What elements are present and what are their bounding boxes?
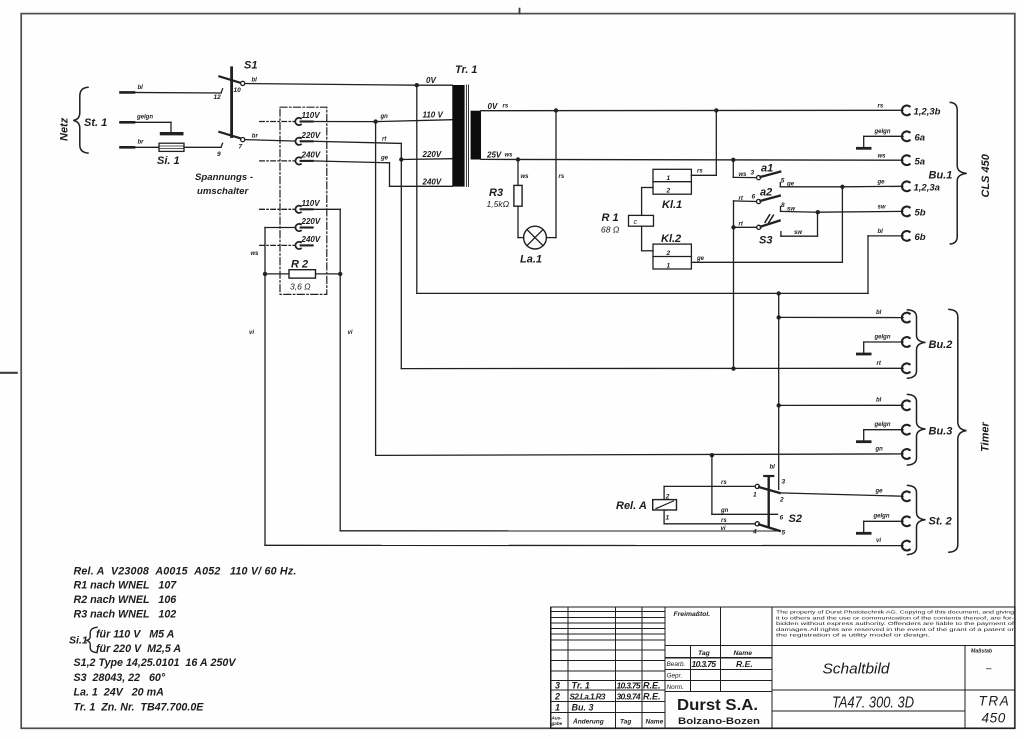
connector St.2 gelgn [902, 516, 910, 526]
wire gelgn St.2 with ground [857, 514, 903, 534]
brace Bu.1 [950, 102, 967, 244]
brace Bu.3 [908, 394, 926, 465]
property notice text [776, 610, 1015, 638]
resistor R2 3,6 ohm [265, 259, 340, 292]
connector Bu.1 pin 1,2,3b [878, 104, 941, 118]
svg-text:Tr. 1: Tr. 1 [572, 681, 590, 691]
svg-text:110V: 110V [302, 111, 321, 120]
svg-text:S3: S3 [759, 235, 772, 247]
svg-text:240V: 240V [301, 235, 321, 244]
svg-text:1,2,3b: 1,2,3b [914, 107, 941, 118]
svg-text:Gepr.: Gepr. [667, 673, 683, 680]
svg-text:Kl.2: Kl.2 [661, 233, 681, 245]
node rt junction [731, 366, 735, 370]
svg-text:7: 7 [239, 144, 243, 151]
svg-text:ge: ge [380, 156, 389, 162]
wire sw a2 out to 5b [781, 202, 903, 212]
svg-text:5b: 5b [915, 208, 926, 219]
wire vi R2 left down [264, 274, 266, 545]
svg-text:gn: gn [380, 114, 389, 120]
transformer Tr.1 primary core [452, 85, 464, 187]
svg-text:1,2,3a: 1,2,3a [914, 183, 940, 194]
svg-text:La. 1 24V 20 mA: La. 1 24V 20 mA [74, 686, 164, 698]
Maßstab cell [971, 649, 993, 675]
node Netz label [59, 117, 71, 141]
connector Bu.2 rt [877, 361, 910, 373]
brace St.1 [73, 87, 88, 153]
wire bl vertical to S2 [778, 293, 780, 489]
wire br from mains [121, 146, 160, 148]
svg-text:R.E.: R.E. [643, 692, 661, 702]
switch S1 bottom contact 7 [241, 138, 245, 142]
transformer Tr.1 secondary core [471, 111, 481, 160]
wire 0V dropper down [416, 85, 418, 293]
svg-text:3: 3 [782, 479, 786, 486]
svg-text:umschalter: umschalter [197, 186, 249, 197]
svg-text:bl: bl [770, 465, 776, 471]
connector Bu.3 gn [875, 447, 910, 459]
svg-text:110V: 110V [302, 199, 321, 208]
tap 240V lower dashed stub [260, 244, 295, 246]
voltage selector dash-dot box [280, 107, 327, 294]
drawing title Schaltbild [823, 662, 891, 678]
svg-text:220V: 220V [422, 150, 442, 159]
svg-text:a2: a2 [760, 187, 772, 199]
svg-text:68 Ω: 68 Ω [601, 225, 620, 235]
svg-text:Spannungs -: Spannungs - [195, 172, 253, 183]
svg-text:ge: ge [696, 256, 705, 262]
svg-text:R2 nach WNEL 106: R2 nach WNEL 106 [74, 594, 177, 606]
connector Bu.1 pin 1,2,3a [877, 180, 940, 194]
svg-text:für 220 V M2,5 A: für 220 V M2,5 A [96, 643, 181, 655]
drawing number TA47.300.3D [832, 695, 914, 712]
svg-text:br: br [252, 134, 259, 140]
svg-text:R 1: R 1 [602, 212, 619, 224]
wire rs vertical from 0V line [715, 110, 717, 175]
revision table rows [551, 612, 665, 713]
svg-text:damages.All rights are reserve: damages.All rights are reserved in the e… [776, 627, 1015, 632]
wire rt dropper down [400, 160, 402, 369]
wire bl 6b [868, 229, 903, 293]
svg-text:6b: 6b [915, 232, 926, 243]
svg-text:6: 6 [752, 194, 756, 201]
wire vi bus to St.2 [265, 544, 903, 546]
svg-text:10.3.75: 10.3.75 [617, 681, 641, 691]
brace St.2 [908, 485, 926, 554]
svg-text:30.9.74: 30.9.74 [617, 692, 641, 702]
node R2 right junction [338, 272, 342, 276]
contact S2 bottom 4 [752, 522, 786, 537]
wire 0V rs secondary line [481, 109, 903, 111]
label CLS450 [980, 153, 992, 197]
node sw junction [816, 210, 820, 214]
svg-text:–: – [986, 664, 992, 675]
svg-text:Rel. A: Rel. A [616, 500, 647, 512]
wire ge a1 out to 1,2,3a [780, 178, 903, 188]
wire gelgn Bu.3 with ground [857, 422, 903, 442]
svg-text:5: 5 [782, 530, 786, 537]
svg-text:vi: vi [249, 330, 254, 336]
wire gn branch to S2 [712, 455, 784, 521]
svg-text:220V: 220V [301, 131, 321, 140]
svg-text:ws: ws [505, 153, 514, 159]
Durst S.A. logo text [677, 697, 760, 726]
revision entries [551, 681, 664, 727]
wire bl from mains [121, 91, 222, 94]
svg-text:ws: ws [521, 174, 530, 180]
tap 110V lower dashed stub [260, 208, 295, 210]
svg-text:Bu.1: Bu.1 [929, 170, 953, 182]
node 25V junction to R3 [516, 157, 520, 161]
svg-text:sw: sw [794, 230, 802, 236]
svg-text:Name: Name [646, 719, 664, 726]
svg-text:Kl.1: Kl.1 [662, 199, 682, 211]
svg-text:Aus-: Aus- [551, 716, 563, 721]
switch S1 top contact 10 [241, 81, 245, 85]
svg-text:Norm.: Norm. [667, 684, 684, 691]
svg-text:bl: bl [878, 229, 884, 235]
brace Si.1 [86, 627, 97, 652]
svg-text:rs: rs [559, 174, 565, 180]
svg-text:rt: rt [382, 137, 387, 143]
label Bu.3 [929, 426, 953, 438]
wire rs Rel.A pin2 to S2 contact 1 [664, 480, 755, 500]
svg-text:1: 1 [666, 515, 670, 522]
svg-text:TRA: TRA [979, 694, 1011, 709]
tap 110V lower [295, 199, 320, 213]
svg-text:S3 28043, 22 60°: S3 28043, 22 60° [74, 672, 166, 684]
svg-text:S1: S1 [244, 60, 257, 72]
wire bl 0V bus [417, 292, 868, 294]
svg-text:gelgn: gelgn [136, 115, 153, 121]
brace Bu.2 [908, 310, 926, 378]
svg-text:rs: rs [503, 104, 509, 110]
svg-text:bl: bl [252, 78, 258, 84]
svg-text:R.E.: R.E. [736, 659, 753, 669]
svg-text:ws: ws [251, 251, 260, 257]
node gn junction [710, 453, 714, 457]
wire Kl.1 pin2 to R1 [642, 187, 653, 189]
svg-text:St. 1: St. 1 [84, 117, 107, 129]
svg-text:Tr. 1: Tr. 1 [455, 64, 477, 76]
svg-text:ge: ge [877, 180, 886, 186]
svg-text:Netz: Netz [59, 117, 71, 141]
node R2 left junction [263, 272, 267, 276]
svg-text:110 V: 110 V [423, 111, 444, 120]
svg-text:Änderung: Änderung [572, 718, 604, 726]
svg-text:bl: bl [138, 85, 144, 91]
svg-text:3: 3 [555, 681, 560, 691]
svg-text:1: 1 [667, 175, 671, 182]
wire sw S3 out [781, 212, 818, 236]
contact a2 [757, 187, 780, 204]
node 220V junction [399, 157, 403, 161]
connector Bu.1 pin 6b [902, 231, 926, 243]
svg-text:S2.La.1.R3: S2.La.1.R3 [570, 693, 607, 702]
svg-text:rs: rs [721, 480, 727, 486]
relay coil Kl.2 [653, 233, 691, 270]
resistor R1 68 ohm [629, 215, 654, 226]
svg-text:25V: 25V [486, 151, 502, 160]
wire R3 to lamp [517, 206, 519, 237]
node Bu.3 bl junction [777, 403, 781, 407]
wire 25V ws secondary line [481, 158, 903, 161]
node 0V rs junction to lamp [554, 108, 558, 112]
wire 220V terminal [401, 158, 452, 161]
svg-text:rs: rs [697, 169, 703, 175]
svg-text:gn: gn [875, 447, 884, 453]
wire lamp to rs [546, 237, 556, 239]
node ge junction [840, 185, 844, 189]
wire vi R2 right down [339, 274, 341, 531]
svg-text:240V: 240V [422, 177, 442, 186]
label Spannungsumschalter [195, 172, 253, 197]
svg-text:gelgn: gelgn [874, 335, 891, 341]
svg-text:Timer: Timer [980, 422, 992, 452]
svg-text:sw: sw [878, 205, 886, 211]
svg-text:Schaltbild: Schaltbild [823, 662, 891, 678]
svg-text:1: 1 [667, 263, 671, 270]
wire gelgn Bu.2 with ground [857, 335, 903, 355]
svg-text:Si.1: Si.1 [69, 635, 88, 647]
wire br fuse to S1 [184, 146, 221, 148]
svg-text:Tr. 1 Zn. Nr. TB47.700.0E: Tr. 1 Zn. Nr. TB47.700.0E [74, 701, 205, 713]
tap 220V lower [295, 217, 320, 231]
svg-text:1: 1 [555, 703, 560, 713]
svg-text:CLS 450: CLS 450 [980, 153, 992, 197]
svg-text:gn: gn [720, 508, 729, 514]
svg-text:Bu.2: Bu.2 [929, 339, 953, 351]
transformer Tr.1 core gap lines [465, 85, 467, 187]
node ws junction on 5a line [731, 158, 735, 162]
wire rs Rel.A pin1 to S2 contact 4 [664, 510, 755, 524]
svg-text:2: 2 [666, 250, 671, 257]
svg-text:gelgn: gelgn [874, 129, 891, 135]
svg-text:gabe: gabe [551, 721, 563, 726]
svg-text:8: 8 [781, 202, 785, 209]
lamp La.1 [524, 226, 547, 249]
svg-text:R1 nach WNEL 107: R1 nach WNEL 107 [74, 580, 178, 592]
wire gelgn 6a with ground [857, 129, 903, 148]
wire ws down to R3 [517, 160, 519, 186]
svg-text:rs: rs [878, 104, 884, 110]
svg-text:2: 2 [554, 692, 560, 702]
node 0V primary junction [415, 83, 419, 87]
wire rt to contact a2 [734, 194, 757, 369]
svg-text:rt: rt [739, 222, 744, 228]
switch S1 bottom blade [219, 132, 240, 139]
svg-text:Name: Name [734, 650, 753, 657]
svg-text:10.3.75: 10.3.75 [692, 659, 717, 669]
connector Bu.2 bl [902, 313, 910, 323]
connector Bu.3 gelgn [902, 425, 910, 435]
svg-text:S2: S2 [789, 513, 802, 525]
svg-text:2: 2 [666, 188, 671, 195]
svg-text:ws: ws [739, 172, 748, 178]
svg-text:Bu. 3: Bu. 3 [572, 703, 594, 713]
tap 240V lower [295, 235, 320, 249]
svg-text:R 2: R 2 [291, 259, 308, 271]
svg-text:2: 2 [779, 497, 784, 504]
svg-text:0V: 0V [488, 102, 498, 111]
node rs junction [714, 108, 718, 112]
svg-text:Si. 1: Si. 1 [157, 155, 180, 167]
label Bu.1 [929, 170, 953, 182]
svg-text:c: c [634, 219, 638, 226]
svg-text:für 110 V M5 A: für 110 V M5 A [96, 629, 174, 641]
svg-text:bl: bl [876, 398, 882, 404]
middle cells [665, 607, 1015, 728]
svg-text:R3 nach WNEL 102: R3 nach WNEL 102 [74, 609, 177, 621]
wire rs Kl.1 pin1 [691, 174, 716, 176]
svg-text:240V: 240V [301, 150, 321, 159]
wire R1 to Kl.2 pin2 [641, 226, 643, 251]
svg-text:ge: ge [786, 182, 795, 188]
svg-text:Maßstab: Maßstab [971, 649, 993, 655]
wire ws to contact a1 [733, 160, 756, 178]
svg-text:1: 1 [753, 492, 757, 499]
wire ge S2 out to St.2 [780, 493, 903, 496]
connector St.2 ge [902, 491, 910, 501]
connector St.1 label [84, 117, 107, 129]
label St.2 [929, 516, 952, 528]
contact S2 top 1 [753, 484, 784, 503]
svg-text:gelgn: gelgn [873, 514, 890, 520]
svg-text:bl: bl [876, 310, 882, 316]
svg-text:5a: 5a [915, 156, 926, 167]
wire rt 220V tap down to transformer 220V [313, 137, 402, 160]
label Bu.2 [929, 339, 953, 351]
svg-text:4: 4 [752, 529, 757, 536]
svg-text:6a: 6a [915, 133, 926, 144]
contact a1 [757, 163, 781, 180]
wire gn tap to transformer [313, 121, 376, 123]
wire 110V lower to R2 right [313, 209, 341, 274]
svg-text:rs: rs [721, 518, 727, 524]
connector Bu.3 bl [902, 400, 910, 410]
label Timer [980, 422, 992, 452]
svg-text:3,6 Ω: 3,6 Ω [290, 282, 311, 292]
svg-text:La.1: La.1 [520, 254, 542, 266]
title block outline [551, 607, 1015, 728]
switch S1 top blade [219, 76, 240, 83]
svg-text:Rel. A V23008 A0015 A052: Rel. A V23008 A0015 A052 110 V/ 60 Hz. [74, 566, 297, 578]
switch S1 bar [230, 68, 233, 137]
svg-text:Tag: Tag [620, 719, 631, 726]
svg-text:The property of Durst Phototec: The property of Durst Phototechnik AG. C… [776, 610, 1015, 615]
svg-text:S1,2 Type 14,25.0101 16 A 250: S1,2 Type 14,25.0101 16 A 250V [74, 657, 237, 669]
node Bu.2 bl junction [777, 315, 781, 319]
resistor R3 1,5k [514, 185, 522, 206]
svg-text:R3: R3 [489, 187, 503, 199]
svg-text:6: 6 [780, 515, 784, 522]
wire rt to timer contact S3 [734, 222, 757, 228]
svg-text:bidden without express authori: bidden without express authority. Offend… [776, 621, 1015, 626]
tap 240V upper [295, 150, 320, 164]
relay Rel.A coil [616, 500, 677, 512]
svg-text:vi: vi [721, 526, 726, 532]
tap 110V upper dashed stub [260, 121, 295, 123]
svg-text:St. 2: St. 2 [929, 516, 952, 528]
tap 240V upper dashed stub [260, 160, 295, 162]
wire ge 240V tap to transformer 240V [313, 156, 453, 187]
wire gelgn from mains [121, 121, 172, 123]
svg-text:12: 12 [214, 94, 222, 101]
svg-text:220V: 220V [301, 217, 321, 226]
tap 220V upper [295, 131, 320, 145]
svg-text:rt: rt [877, 361, 882, 367]
connector Bu.1 pin 5a [878, 154, 926, 168]
svg-text:vi: vi [876, 538, 881, 544]
wire ge vertical up to 1,2,3a [841, 187, 843, 262]
svg-text:Bolzano-Bozen: Bolzano-Bozen [678, 716, 760, 726]
brace Timer [949, 309, 967, 552]
connector Bu.2 gelgn [902, 337, 910, 347]
wire rt bus to Bu.2 [401, 367, 903, 369]
svg-text:Freimaßtol.: Freimaßtol. [674, 611, 711, 618]
timer contact S3 [757, 215, 780, 247]
wire gn dropper down [375, 122, 377, 456]
revision table verticals [568, 607, 665, 728]
wire bl Bu.3 [779, 404, 903, 406]
switch S2 bar [764, 476, 802, 527]
connector Bu.1 pin 6a [902, 131, 925, 143]
svg-text:R.E.: R.E. [643, 681, 661, 691]
svg-text:sw: sw [787, 206, 795, 212]
svg-text:Bearb.: Bearb. [667, 661, 686, 668]
relay coil Kl.1 [653, 169, 691, 211]
svg-text:0V: 0V [426, 76, 436, 85]
node 110V junction [373, 119, 377, 123]
ground chassis at gelgn [162, 132, 182, 135]
svg-text:Bu.3: Bu.3 [929, 426, 953, 438]
svg-text:10: 10 [234, 87, 242, 94]
svg-text:gelgn: gelgn [874, 422, 891, 428]
svg-text:TA47. 300. 3D: TA47. 300. 3D [832, 695, 914, 712]
svg-text:br: br [138, 140, 145, 146]
node rt junction at S3 [731, 225, 735, 229]
svg-text:Tag: Tag [698, 650, 711, 657]
wire bl Bu.2 [779, 316, 903, 318]
svg-text:it to others and the use or co: it to others and the use or communicatio… [776, 615, 1015, 620]
wire ws 220V lower to R2 left [251, 228, 296, 274]
tap 110V upper [295, 111, 320, 125]
fuse Si.1 [159, 143, 184, 151]
svg-text:9: 9 [217, 151, 221, 158]
connector Bu.1 pin 5b [878, 205, 926, 219]
svg-text:1,5kΩ: 1,5kΩ [487, 199, 510, 209]
node bl junction [777, 291, 781, 295]
svg-text:450: 450 [982, 711, 1006, 726]
connector St.2 vi [876, 538, 910, 550]
svg-text:ws: ws [878, 154, 887, 160]
svg-text:vi: vi [348, 330, 353, 336]
svg-text:5: 5 [781, 178, 785, 185]
wire gn bus to Bu.3 [376, 454, 903, 456]
svg-text:3: 3 [751, 170, 755, 177]
svg-text:ge: ge [875, 489, 884, 495]
wire bl S1 to 0V primary [245, 84, 417, 86]
wire vi bus to S2 contact 5 [340, 530, 780, 532]
svg-text:a1: a1 [761, 163, 773, 175]
svg-text:Durst S.A.: Durst S.A. [677, 697, 758, 714]
wire ge Kl.2 pin1 [691, 261, 842, 263]
svg-text:the registration of a utility: the registration of a utility model or d… [776, 633, 930, 638]
wire br S1 to 220V tap [245, 140, 296, 142]
sheet code TRA 450 [979, 694, 1011, 726]
